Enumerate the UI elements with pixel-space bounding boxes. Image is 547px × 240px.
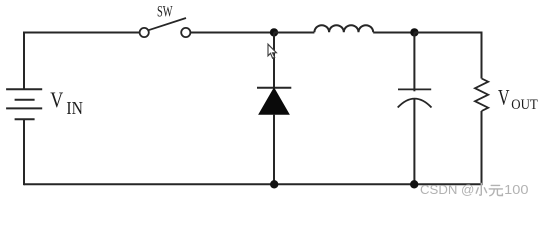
watermark glyph 元 [489, 185, 502, 195]
battery V1 plates [6, 89, 42, 119]
wire node A to inductor [274, 32, 314, 34]
wire inductor to node B [373, 32, 414, 34]
svg-text:OUT: OUT [511, 97, 538, 113]
svg-text:SW: SW [157, 3, 173, 20]
svg-text:100: 100 [504, 182, 528, 197]
watermark glyph 小 [476, 183, 486, 195]
node B junction dot (top of capacitor) [410, 28, 418, 36]
node C junction dot (diode bottom) [270, 180, 278, 188]
wire battery bottom lead [23, 119, 25, 185]
resistor R1 zigzag [475, 79, 488, 112]
label VOUT [498, 84, 538, 113]
wire bottom rail [24, 183, 482, 185]
switch SW arm [149, 18, 187, 30]
svg-text:V: V [50, 87, 63, 112]
wire diode to bottom rail [273, 114, 275, 185]
watermark CSDN @小元100 [420, 182, 529, 197]
svg-text:V: V [498, 84, 510, 109]
label VIN [50, 87, 83, 118]
wire top-left horizontal to switch [24, 32, 140, 34]
diode D1 cathode bar [257, 87, 291, 89]
wire left vertical (battery top lead) [23, 32, 25, 90]
node A junction dot (top of diode) [270, 28, 278, 36]
svg-text:IN: IN [66, 98, 83, 118]
wire capacitor bottom lead [413, 99, 415, 185]
diode D1 triangle [259, 88, 289, 114]
wire diode anode-cathode vertical [273, 33, 275, 89]
capacitor C1 flat plate [398, 88, 431, 90]
wire resistor bottom lead to bottom-right corner [481, 111, 483, 185]
svg-text:CSDN @: CSDN @ [420, 182, 474, 197]
node D junction dot (capacitor bottom) [410, 180, 418, 188]
wire capacitor top lead [413, 33, 415, 92]
switch SW contacts [140, 28, 191, 37]
wire node B to top-right corner and down to resistor [414, 33, 481, 79]
inductor L1 [314, 25, 373, 32]
capacitor C1 curved plate [398, 99, 432, 108]
cursor arrow [268, 44, 276, 58]
wire switch to node A [191, 32, 275, 34]
